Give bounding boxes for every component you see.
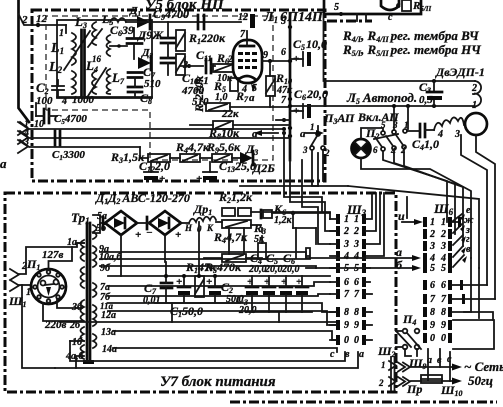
svg-text:2: 2 bbox=[471, 83, 477, 94]
capacitor C5 4700 bbox=[44, 109, 49, 123]
pin Ш6 row 1 bbox=[423, 217, 427, 227]
pin Ш3 row 3 bbox=[336, 239, 340, 249]
pin Ш6 row 0 bbox=[423, 333, 427, 343]
pin Ш6 row 6 bbox=[423, 280, 427, 290]
capacitor C6 symbol bbox=[296, 276, 308, 312]
svg-text:−: − bbox=[146, 227, 153, 239]
svg-text:0: 0 bbox=[344, 335, 349, 346]
ground bus bbox=[60, 321, 336, 323]
wire tap 11а row bbox=[108, 303, 336, 312]
svg-text:R44,7к: R44,7к bbox=[213, 230, 248, 245]
svg-text:8: 8 bbox=[430, 307, 435, 318]
variable arrow L1 bbox=[64, 31, 90, 70]
svg-text:9б: 9б bbox=[100, 263, 111, 274]
svg-text:100: 100 bbox=[36, 95, 53, 107]
svg-text:8: 8 bbox=[441, 307, 446, 318]
wire tap 9б row bbox=[100, 266, 316, 268]
svg-text:Н: Н bbox=[184, 223, 193, 233]
capacitor mid col bbox=[161, 38, 175, 43]
wire 1б row bbox=[70, 341, 345, 361]
svg-text:5: 5 bbox=[441, 263, 446, 274]
svg-text:6: 6 bbox=[281, 47, 286, 58]
svg-text:C54700: C54700 bbox=[54, 113, 87, 126]
svg-text:3: 3 bbox=[23, 137, 29, 148]
svg-text:9: 9 bbox=[430, 320, 435, 331]
wire tap 13а row bbox=[113, 331, 336, 340]
svg-text:3б: 3б bbox=[71, 302, 83, 313]
svg-text:1,0: 1,0 bbox=[215, 92, 228, 103]
trimmer L3 bbox=[88, 29, 102, 47]
wire bridge mid bbox=[137, 222, 149, 224]
svg-text:2: 2 bbox=[353, 226, 359, 237]
wire tap 4аб bbox=[76, 356, 84, 368]
svg-text:8: 8 bbox=[354, 307, 359, 318]
svg-text:50гц: 50гц bbox=[468, 373, 493, 388]
resistor К6 1,2к bbox=[260, 210, 263, 218]
connector chevrons bbox=[18, 122, 28, 153]
svg-text:4: 4 bbox=[353, 251, 359, 262]
tuning indicator circle bbox=[465, 113, 487, 135]
pin Ш3 row 9 bbox=[336, 320, 340, 330]
svg-text:0,1: 0,1 bbox=[195, 75, 209, 87]
svg-text:127в: 127в bbox=[42, 249, 64, 261]
svg-text:R21,2к: R21,2к bbox=[218, 190, 253, 205]
wire lamp to switch bbox=[361, 128, 383, 139]
wire coil Л4 down to Ш6 bbox=[461, 135, 487, 285]
wire П2 contact 6 to Ш6 bbox=[383, 151, 447, 222]
svg-text:и: и bbox=[398, 209, 405, 223]
wire output line bbox=[290, 105, 473, 107]
transformer right winding bbox=[93, 225, 97, 239]
block У5 dash-dot border bbox=[32, 10, 325, 181]
svg-text:2: 2 bbox=[324, 148, 330, 158]
pin Ш3 row 2 bbox=[336, 226, 340, 236]
dash-dot stub top right bbox=[327, 20, 372, 23]
svg-text:3: 3 bbox=[353, 239, 359, 250]
svg-text:а: а bbox=[0, 156, 7, 171]
core L1/L3 bbox=[80, 30, 83, 96]
wire П1 220в to taps bbox=[43, 303, 82, 321]
wire to C11 bbox=[180, 65, 203, 67]
svg-text:а: а bbox=[249, 92, 255, 104]
pin Ш6 row 9 bbox=[423, 320, 427, 330]
pin Ш3 row 7 bbox=[336, 289, 340, 299]
svg-text:1: 1 bbox=[354, 214, 359, 225]
svg-text:в: в bbox=[396, 0, 401, 11]
inner dashed box bbox=[46, 16, 273, 160]
svg-text:1: 1 bbox=[430, 217, 435, 228]
pin Ш6 row 4 bbox=[423, 253, 427, 263]
svg-text:9: 9 bbox=[344, 320, 349, 331]
wire stubs top block bbox=[356, 14, 358, 21]
svg-text:0: 0 bbox=[430, 333, 435, 344]
main vertical bus x290 bbox=[289, 14, 292, 160]
wire П1 left down bbox=[22, 285, 55, 368]
svg-text:~ Сеть: ~ Сеть bbox=[464, 359, 503, 374]
svg-text:9: 9 bbox=[263, 50, 268, 61]
wire П3 net to Ш6 bbox=[348, 186, 479, 268]
svg-text:2: 2 bbox=[21, 14, 28, 26]
wire П2 contact 2 to Ш6 bbox=[404, 149, 463, 246]
wire mains top bbox=[411, 366, 452, 368]
svg-text:0: 0 bbox=[354, 335, 359, 346]
pin Ш3 row 4 bbox=[336, 251, 340, 261]
svg-text:3: 3 bbox=[454, 129, 460, 140]
transformer left winding bbox=[81, 240, 85, 261]
wire tap 14а row bbox=[113, 348, 337, 352]
svg-text:R95,6к: R95,6к bbox=[206, 140, 241, 155]
ground bar core bbox=[83, 360, 94, 364]
wire Ш6 right stubs bbox=[452, 221, 458, 223]
svg-text:C41,0: C41,0 bbox=[412, 137, 439, 152]
coil L6 bbox=[107, 35, 111, 56]
svg-text:3: 3 bbox=[429, 241, 435, 252]
wire tap 7б row bbox=[108, 294, 330, 296]
svg-text:П3АП: П3АП bbox=[323, 111, 355, 126]
wire choke down bbox=[198, 222, 200, 276]
svg-text:10а,б: 10а,б bbox=[99, 252, 123, 263]
wire mains bottom bbox=[411, 380, 452, 382]
svg-text:+: + bbox=[159, 173, 165, 185]
wire П4 feed bbox=[396, 330, 402, 332]
wire C11 to R6 bbox=[211, 65, 215, 67]
svg-text:13а: 13а bbox=[101, 327, 116, 338]
svg-text:6: 6 bbox=[430, 280, 435, 291]
transformer core bbox=[86, 223, 89, 360]
ground row bottom caps bbox=[246, 311, 312, 313]
svg-text:2: 2 bbox=[429, 229, 435, 240]
svg-text:3: 3 bbox=[343, 239, 349, 250]
svg-text:1,2к: 1,2к bbox=[274, 215, 293, 226]
wire П3 down bbox=[312, 150, 348, 186]
svg-text:б: б bbox=[396, 258, 403, 272]
svg-text:C13300: C13300 bbox=[52, 149, 85, 162]
svg-text:1б: 1б bbox=[72, 337, 83, 348]
pin Ш3 row 6 bbox=[336, 277, 340, 287]
wire П2 contact 4 to Ш6 bbox=[394, 150, 455, 234]
oscillator solid box bbox=[57, 20, 152, 98]
wire Ш1 common row bbox=[55, 352, 358, 368]
tube anode bbox=[240, 45, 254, 48]
wire П1 127в bbox=[49, 247, 73, 269]
svg-text:14а: 14а bbox=[102, 344, 117, 355]
svg-text:6: 6 bbox=[373, 145, 378, 155]
svg-text:+: + bbox=[196, 173, 202, 185]
svg-text:Д1Д2АВС-120-270: Д1Д2АВС-120-270 bbox=[95, 191, 190, 206]
svg-text:а: а bbox=[396, 245, 402, 259]
wire R2 to К6 rows bbox=[251, 212, 330, 219]
svg-text:10: 10 bbox=[34, 119, 44, 130]
svg-text:C1325,0: C1325,0 bbox=[219, 159, 256, 174]
svg-text:12: 12 bbox=[238, 12, 248, 23]
svg-text:Д9Ж: Д9Ж bbox=[137, 28, 164, 42]
pin Ш3 row 5 bbox=[336, 263, 340, 273]
fuse Пр bbox=[421, 375, 442, 383]
svg-text:+: + bbox=[175, 229, 181, 241]
wire osc bottom bbox=[57, 96, 152, 98]
svg-text:6: 6 bbox=[441, 280, 446, 291]
rectifier Д1 bridge bbox=[102, 217, 105, 229]
svg-text:Л16П14П: Л16П14П bbox=[263, 10, 324, 25]
svg-text:а: а bbox=[359, 349, 364, 360]
svg-text:+: + bbox=[135, 229, 141, 241]
bottom frame dash-dot bbox=[230, 401, 497, 404]
pin Ш3 row 1 bbox=[336, 214, 340, 224]
pin Ш6 row 7 bbox=[423, 294, 427, 304]
svg-text:9: 9 bbox=[354, 320, 359, 331]
wire tap 10аб row bbox=[100, 258, 310, 260]
wire across mid gap bbox=[240, 185, 318, 187]
wire tap 7а row bbox=[108, 282, 330, 286]
wire rows left connector bbox=[20, 122, 284, 129]
wire П2 contact 3 up bbox=[393, 106, 395, 130]
capacitor C1 3300 bbox=[55, 131, 60, 145]
svg-text:5: 5 bbox=[334, 2, 339, 13]
ground row left caps bbox=[155, 302, 240, 304]
block У7 dash-dot border bbox=[5, 193, 396, 392]
svg-text:9: 9 bbox=[441, 320, 446, 331]
pin Ш3 row 0 bbox=[336, 335, 340, 345]
wire top row bbox=[126, 21, 241, 23]
wire bus top caps bbox=[108, 275, 330, 277]
svg-text:510: 510 bbox=[144, 78, 161, 90]
svg-text:3: 3 bbox=[392, 120, 398, 130]
svg-text:в: в bbox=[466, 244, 471, 255]
svg-text:с: с bbox=[330, 349, 335, 360]
svg-text:1: 1 bbox=[441, 217, 446, 228]
svg-text:2: 2 bbox=[378, 378, 384, 388]
wire taps to bridge bbox=[93, 215, 105, 223]
svg-text:с: с bbox=[388, 12, 393, 23]
svg-text:К: К bbox=[206, 223, 214, 233]
svg-text:0: 0 bbox=[441, 333, 446, 344]
wire autopod down bbox=[407, 106, 409, 129]
svg-text:1: 1 bbox=[59, 28, 64, 39]
svg-text:C510,0: C510,0 bbox=[293, 37, 327, 52]
resistor R4 4,7к bottom bbox=[222, 220, 251, 228]
top-right block fragment border bbox=[324, 0, 421, 14]
svg-text:C639: C639 bbox=[110, 23, 134, 38]
wire L6 to caps bbox=[110, 45, 127, 47]
svg-text:R5/I, R5/IIрег. тембра НЧ: R5/I, R5/IIрег. тембра НЧ bbox=[342, 42, 482, 58]
wire tap 12а row bbox=[108, 311, 336, 325]
pin Ш6 row 5 bbox=[423, 263, 427, 273]
pin Ш6 row 2 bbox=[423, 229, 427, 239]
wire row 8 bbox=[230, 106, 290, 108]
wire input top bbox=[19, 14, 67, 25]
wire left frame bbox=[19, 0, 30, 122]
svg-text:5: 5 bbox=[281, 16, 286, 27]
wire П4 down bbox=[405, 349, 411, 356]
wire R10 bbox=[269, 61, 271, 76]
svg-text:3: 3 bbox=[302, 145, 308, 155]
rectifier Д2 bridge bbox=[146, 217, 149, 229]
capacitor C5 symbol bbox=[280, 276, 292, 312]
tube cathode bbox=[239, 76, 255, 79]
svg-text:ДвЭДП-1: ДвЭДП-1 bbox=[435, 65, 485, 79]
wire и feed bbox=[406, 197, 408, 218]
svg-text:1а: 1а bbox=[67, 237, 77, 248]
svg-text:1000: 1000 bbox=[72, 94, 95, 106]
svg-text:2: 2 bbox=[343, 226, 349, 237]
capacitor C4 symbol bbox=[263, 276, 275, 312]
svg-text:5: 5 bbox=[430, 263, 435, 274]
wire Ш3 right up bbox=[366, 193, 372, 219]
svg-text:4: 4 bbox=[437, 129, 443, 140]
pin Ш6 row 3 bbox=[423, 241, 427, 251]
tube grids bbox=[238, 52, 257, 69]
svg-text:C94700: C94700 bbox=[153, 7, 189, 22]
switch П3 bbox=[317, 126, 319, 132]
svg-text:Пр: Пр bbox=[406, 382, 422, 396]
wire verticals to Ш6 bbox=[463, 284, 487, 286]
wire lamp П2 bottom to Ш6 bbox=[361, 158, 471, 258]
svg-text:C620,0: C620,0 bbox=[294, 87, 328, 102]
svg-text:3: 3 bbox=[440, 241, 446, 252]
svg-text:2: 2 bbox=[440, 229, 446, 240]
wire Ш1 pin1 to П1 bbox=[19, 284, 31, 286]
junction bbox=[36, 23, 40, 27]
variable arrow L4 bbox=[88, 68, 106, 96]
svg-text:6: 6 bbox=[354, 277, 359, 288]
wire anode supply bbox=[324, 14, 476, 81]
svg-text:1: 1 bbox=[310, 122, 315, 132]
resistor R2 220к (lower vert) bbox=[176, 54, 185, 75]
svg-text:1: 1 bbox=[381, 360, 386, 370]
svg-text:4: 4 bbox=[343, 251, 349, 262]
wire Ш1 pin2 to tap 1а bbox=[19, 243, 84, 274]
wire R4 down bbox=[228, 228, 230, 254]
box right pins 9 0 bbox=[453, 320, 494, 349]
wire indicator down to Ш6 bbox=[476, 135, 495, 299]
wire У5 rows to Ш3 top bbox=[284, 133, 322, 212]
svg-text:У7 блок питания: У7 блок питания bbox=[160, 374, 276, 390]
wire tap 9а row bbox=[100, 252, 306, 258]
junction dots bus bbox=[288, 126, 292, 130]
pin Ш3 row 8 bbox=[336, 307, 340, 317]
svg-text:R1220к: R1220к bbox=[188, 31, 226, 46]
tube fragment bbox=[381, 0, 399, 10]
wire bridge down to bus bbox=[120, 235, 122, 276]
svg-text:8: 8 bbox=[344, 307, 349, 318]
svg-text:6: 6 bbox=[344, 277, 349, 288]
svg-text:а: а bbox=[300, 128, 306, 140]
resistor R1 220к (upper vert) bbox=[176, 30, 185, 51]
resistor anode top block bbox=[402, 0, 411, 11]
wire а в с drops bbox=[427, 349, 429, 380]
pin Ш6 row 8 bbox=[423, 307, 427, 317]
svg-text:R44,7к: R44,7к bbox=[175, 140, 210, 155]
svg-text:1: 1 bbox=[344, 214, 349, 225]
capacitor C3 symbol bbox=[246, 276, 258, 312]
